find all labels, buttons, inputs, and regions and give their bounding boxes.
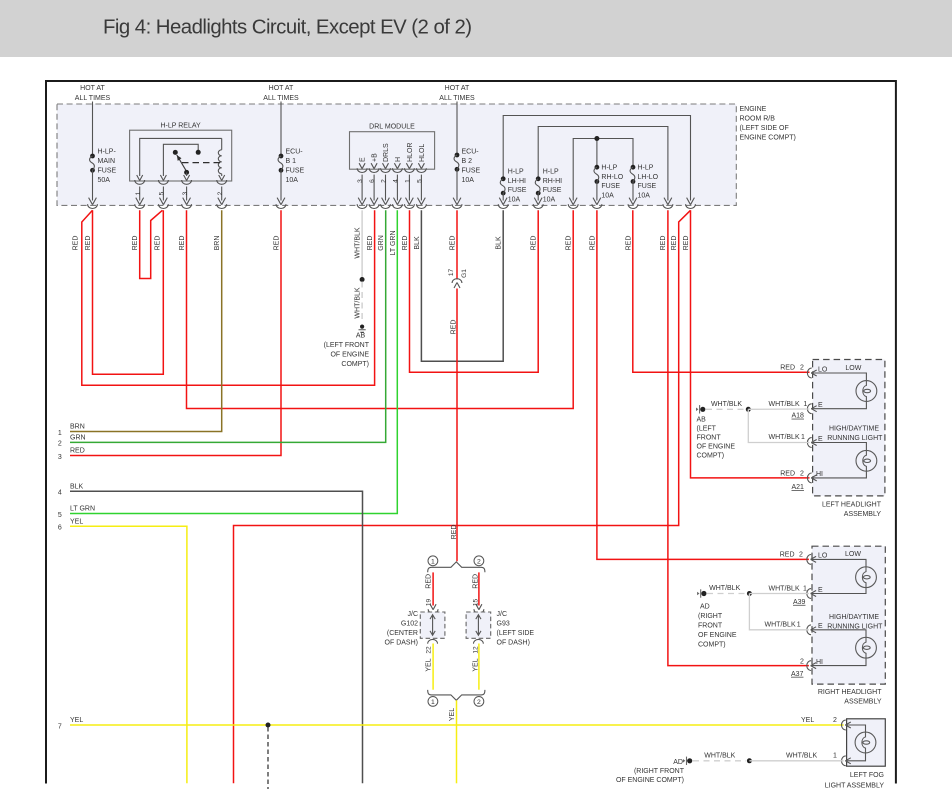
svg-text:LO: LO xyxy=(818,366,828,373)
wire RED relay pin3 to LO-fuse bus xyxy=(187,210,574,408)
relay common contact (pin3) xyxy=(184,170,189,175)
svg-text:A21: A21 xyxy=(792,484,805,491)
svg-text:RED: RED xyxy=(274,236,281,251)
svg-text:2: 2 xyxy=(800,470,804,477)
svg-text:1: 1 xyxy=(58,430,62,437)
svg-text:1: 1 xyxy=(801,434,805,441)
svg-text:OF ENGINE: OF ENGINE xyxy=(330,352,369,359)
svg-text:RED: RED xyxy=(85,236,92,251)
circled 1 bottom xyxy=(428,697,438,707)
svg-text:H: H xyxy=(395,157,402,162)
wire RED main fuse branch to DRL +B xyxy=(82,210,375,385)
svg-text:6: 6 xyxy=(58,525,62,532)
svg-text:FUSE: FUSE xyxy=(286,167,305,174)
left headlight pin HI xyxy=(807,473,816,483)
svg-text:A39: A39 xyxy=(793,599,806,606)
svg-text:YEL: YEL xyxy=(70,519,83,526)
svg-text:A37: A37 xyxy=(791,671,804,678)
svg-text:1: 1 xyxy=(405,179,412,183)
svg-text:H-LP: H-LP xyxy=(601,165,617,172)
wire RED brace to J/C G102 xyxy=(432,572,434,605)
svg-text:10A: 10A xyxy=(286,177,299,184)
svg-text:WHT/BLK: WHT/BLK xyxy=(769,585,800,592)
junction WHT/BLK AB xyxy=(746,407,751,412)
fuse H-LP LH-HI 10A xyxy=(500,176,505,195)
svg-text:WHT/BLK: WHT/BLK xyxy=(704,752,735,759)
svg-text:OF ENGINE COMPT): OF ENGINE COMPT) xyxy=(616,777,684,784)
svg-text:E: E xyxy=(818,587,823,594)
svg-text:FUSE: FUSE xyxy=(601,183,620,190)
svg-text:10A: 10A xyxy=(543,196,556,203)
svg-text:RED: RED xyxy=(780,552,795,559)
svg-text:H-LP RELAY: H-LP RELAY xyxy=(160,123,201,130)
wire LT GRN DRL H to row 5 xyxy=(70,210,397,513)
fuse ECU-B 2 10A xyxy=(456,102,458,156)
svg-text:HI: HI xyxy=(816,471,823,478)
svg-text:YEL: YEL xyxy=(70,717,83,724)
svg-text:RED: RED xyxy=(473,574,480,589)
wire RED main fuse to relay pin5 (U) xyxy=(93,210,164,374)
svg-text:RED: RED xyxy=(566,236,573,251)
svg-text:WHT/BLK: WHT/BLK xyxy=(769,434,800,441)
left headlight pin E xyxy=(807,438,816,448)
brace bottom (connector 1/2) xyxy=(428,690,485,700)
svg-text:LOW: LOW xyxy=(845,365,861,372)
wire RED DRL HLOR to RH-HI fuse xyxy=(410,210,539,372)
splice AD to fog light xyxy=(683,757,692,765)
svg-text:RED: RED xyxy=(531,236,538,251)
svg-text:RH-HI: RH-HI xyxy=(543,178,562,185)
relay coil xyxy=(218,138,221,176)
wire to connector (bracket3 left leg) xyxy=(568,198,578,209)
left headlight pin LO xyxy=(807,368,816,378)
svg-text:RED: RED xyxy=(660,236,667,251)
title bar xyxy=(0,0,952,57)
svg-text:HOT AT: HOT AT xyxy=(80,85,105,92)
svg-text:OF ENGINE: OF ENGINE xyxy=(697,444,736,451)
svg-text:RH-LO: RH-LO xyxy=(601,174,623,181)
wire YEL row 7 to left fog light xyxy=(70,724,844,726)
svg-text:DRL MODULE: DRL MODULE xyxy=(369,124,415,131)
svg-text:LOW: LOW xyxy=(845,551,861,558)
relay internal: pin5-contact wire xyxy=(163,144,198,176)
relay switch blade xyxy=(177,155,187,172)
svg-text:LH-LO: LH-LO xyxy=(638,174,659,181)
svg-text:RED: RED xyxy=(589,236,596,251)
wire RED relay pin1 to pin5 (U) xyxy=(140,210,163,278)
svg-text:22: 22 xyxy=(425,646,432,654)
inline connector 17 / G1 xyxy=(452,279,462,288)
relay internal: pin1-coil wire xyxy=(140,138,222,176)
svg-text:2: 2 xyxy=(800,659,804,666)
svg-text:YEL: YEL xyxy=(473,658,480,671)
relay armature dashed link xyxy=(182,162,224,164)
svg-text:FRONT: FRONT xyxy=(698,622,723,629)
svg-text:A18: A18 xyxy=(792,413,805,420)
svg-text:RIGHT HEADLIGHT: RIGHT HEADLIGHT xyxy=(818,689,882,696)
svg-text:AB: AB xyxy=(356,333,366,340)
svg-text:E: E xyxy=(818,402,823,409)
svg-text:RED: RED xyxy=(451,525,458,540)
svg-text:OF ENGINE: OF ENGINE xyxy=(698,632,737,639)
svg-text:HIGH/DAYTIME: HIGH/DAYTIME xyxy=(829,425,879,432)
left headlight assembly dashed box xyxy=(813,360,885,496)
left fog light assembly box xyxy=(847,719,886,766)
right headlight assembly dashed box xyxy=(812,546,885,684)
svg-text:19: 19 xyxy=(425,599,432,607)
fog pin YEL (2) xyxy=(842,720,851,730)
svg-text:AB: AB xyxy=(697,416,707,423)
svg-text:ASSEMBLY: ASSEMBLY xyxy=(844,699,882,706)
svg-text:RUNNING LIGHT: RUNNING LIGHT xyxy=(827,435,883,442)
svg-text:3: 3 xyxy=(182,191,189,195)
svg-text:YEL: YEL xyxy=(801,717,814,724)
svg-text:2: 2 xyxy=(833,717,837,724)
svg-text:3: 3 xyxy=(58,454,62,461)
svg-text:ECU-: ECU- xyxy=(462,148,480,155)
fuse H-LP RH-HI 10A xyxy=(535,176,540,195)
svg-text:RED: RED xyxy=(73,236,80,251)
svg-text:BLK: BLK xyxy=(70,483,84,490)
svg-text:G1: G1 xyxy=(461,269,468,278)
svg-text:BLK: BLK xyxy=(414,236,421,250)
wire RED G1 to J/C brace xyxy=(456,289,458,562)
svg-text:WHT/BLK: WHT/BLK xyxy=(709,585,740,592)
J/C G102 internal xyxy=(430,615,435,636)
svg-text:RED: RED xyxy=(402,236,409,251)
svg-text:E: E xyxy=(360,157,367,162)
splice AD to right headlight E xyxy=(697,589,706,597)
svg-text:COMPT): COMPT) xyxy=(697,453,725,460)
junction connector J/C G93 box xyxy=(466,612,491,638)
engine room R/B dashed box xyxy=(57,104,736,205)
figure frame border xyxy=(46,81,896,784)
svg-text:BLK: BLK xyxy=(496,236,503,250)
svg-text:H-LP: H-LP xyxy=(543,169,559,176)
svg-text:10A: 10A xyxy=(601,192,614,199)
dashed branch below row 7 xyxy=(267,727,269,789)
svg-text:WHT/BLK: WHT/BLK xyxy=(355,287,362,318)
svg-text:FUSE: FUSE xyxy=(462,167,481,174)
wire RED ECU-B2 to inline connector G1 xyxy=(456,210,458,279)
svg-text:RED: RED xyxy=(367,236,374,251)
svg-text:(LEFT SIDE OF: (LEFT SIDE OF xyxy=(740,125,789,132)
svg-text:HIGH/DAYTIME: HIGH/DAYTIME xyxy=(829,614,879,621)
brace top (connector 1/2) xyxy=(428,562,485,572)
wire GRN DRL DRLS to row 2 xyxy=(70,210,386,442)
wire WHT/BLK DRL E to splice AB xyxy=(361,210,363,277)
svg-text:Fig 4: Headlights Circuit, Exc: Fig 4: Headlights Circuit, Except EV (2 … xyxy=(103,17,472,39)
svg-text:WHT/BLK: WHT/BLK xyxy=(769,401,800,408)
svg-text:10A: 10A xyxy=(508,196,521,203)
fog pin WHT/BLK (1) xyxy=(842,756,851,766)
junction connector J/C G102 box xyxy=(420,612,445,638)
svg-text:ALL TIMES: ALL TIMES xyxy=(263,95,299,102)
svg-text:1: 1 xyxy=(833,753,837,760)
svg-text:LEFT FOG: LEFT FOG xyxy=(850,772,884,779)
svg-text:HLOL: HLOL xyxy=(419,144,426,162)
svg-text:HOT AT: HOT AT xyxy=(269,85,294,92)
svg-text:H-LP-: H-LP- xyxy=(98,148,117,155)
svg-text:2: 2 xyxy=(800,364,804,371)
bus bracket 1 (LH-HI feed) xyxy=(503,116,690,201)
right headlight pin HI xyxy=(807,661,816,671)
svg-text:RED: RED xyxy=(132,236,139,251)
svg-text:RED: RED xyxy=(179,236,186,251)
fog bulb xyxy=(855,732,876,753)
junction WHT/BLK AD xyxy=(747,591,752,596)
relay K1 H-LP RELAY box xyxy=(130,130,232,181)
svg-text:+B: +B xyxy=(372,153,379,162)
svg-text:5: 5 xyxy=(159,191,166,195)
svg-text:WHT/BLK: WHT/BLK xyxy=(765,621,796,628)
svg-text:OF DASH): OF DASH) xyxy=(385,640,418,647)
svg-text:RUNNING LIGHT: RUNNING LIGHT xyxy=(827,623,883,630)
junction WHT/BLK AD fog xyxy=(747,758,752,763)
svg-text:WHT/BLK: WHT/BLK xyxy=(786,753,817,760)
svg-text:2: 2 xyxy=(381,179,388,183)
svg-text:7: 7 xyxy=(58,723,62,730)
right headlight pin LO xyxy=(807,554,816,564)
left headlight internal wiring xyxy=(812,373,866,478)
svg-text:(LEFT FRONT: (LEFT FRONT xyxy=(324,342,370,349)
right headlight internal wiring xyxy=(812,559,866,665)
junction row7 / dashed branch xyxy=(266,723,271,728)
svg-text:B 2: B 2 xyxy=(462,158,473,165)
splice AB (vertical) xyxy=(359,325,366,333)
svg-text:HLOR: HLOR xyxy=(407,143,414,162)
svg-text:ASSEMBLY: ASSEMBLY xyxy=(844,511,882,518)
svg-text:RED: RED xyxy=(426,574,433,589)
svg-text:RED: RED xyxy=(451,320,458,335)
svg-text:RED: RED xyxy=(625,236,632,251)
svg-text:FRONT: FRONT xyxy=(697,435,722,442)
DRL module U1 box xyxy=(350,132,435,170)
wire BLK LH-HI fuse to DRL HLOL (U) xyxy=(421,210,503,361)
svg-text:RED: RED xyxy=(780,470,795,477)
svg-text:5: 5 xyxy=(58,512,62,519)
fog internal wiring xyxy=(846,725,865,761)
svg-text:ALL TIMES: ALL TIMES xyxy=(439,95,475,102)
svg-text:RED: RED xyxy=(70,448,85,455)
svg-text:MAIN: MAIN xyxy=(98,158,116,165)
svg-text:AD: AD xyxy=(673,759,683,766)
svg-text:(LEFT SIDE: (LEFT SIDE xyxy=(497,630,535,637)
svg-text:COMPT): COMPT) xyxy=(698,641,726,648)
circled 2 top xyxy=(474,556,484,566)
svg-text:4: 4 xyxy=(393,179,400,183)
left headlight pin E xyxy=(807,404,816,414)
wire RED brace to J/C G93 xyxy=(478,572,480,605)
svg-text:G93: G93 xyxy=(497,621,510,628)
svg-text:5: 5 xyxy=(417,179,424,183)
svg-text:ALL TIMES: ALL TIMES xyxy=(75,95,111,102)
svg-text:RED: RED xyxy=(780,364,795,371)
svg-text:(RIGHT: (RIGHT xyxy=(698,613,723,620)
junction bracket3 / RH-LO xyxy=(594,136,599,141)
svg-text:LT GRN: LT GRN xyxy=(390,230,397,255)
svg-text:LH-HI: LH-HI xyxy=(508,178,526,185)
svg-text:LO: LO xyxy=(818,553,828,560)
svg-text:6: 6 xyxy=(369,179,376,183)
svg-text:1: 1 xyxy=(803,401,807,408)
svg-text:J/C: J/C xyxy=(497,611,508,618)
svg-text:3: 3 xyxy=(357,179,364,183)
right headlight pin E xyxy=(807,625,816,635)
svg-text:RED: RED xyxy=(450,236,457,251)
wire YEL row 6 xyxy=(70,526,187,783)
svg-text:H-LP: H-LP xyxy=(508,169,524,176)
right headlight low bulb xyxy=(856,567,877,588)
J/C G93 internal xyxy=(476,615,481,636)
svg-text:FUSE: FUSE xyxy=(543,187,562,194)
svg-text:2: 2 xyxy=(799,552,803,559)
svg-text:BRN: BRN xyxy=(214,236,221,251)
svg-text:17: 17 xyxy=(448,269,455,277)
svg-text:GRN: GRN xyxy=(70,435,86,442)
svg-text:1: 1 xyxy=(797,621,801,628)
junction WHT/BLK xyxy=(360,277,365,282)
svg-text:ROOM R/B: ROOM R/B xyxy=(740,116,776,123)
svg-text:LEFT HEADLIGHT: LEFT HEADLIGHT xyxy=(822,502,882,509)
relay open contact xyxy=(173,150,178,155)
fuse H-LP LH-LO 10A xyxy=(630,165,635,184)
svg-text:LIGHT ASSEMBLY: LIGHT ASSEMBLY xyxy=(825,782,885,789)
wire YEL J/C G102 out xyxy=(432,644,434,690)
svg-text:FUSE: FUSE xyxy=(508,187,527,194)
splice AB to left headlight E xyxy=(696,405,705,413)
wire YEL brace down (crosses row 7) xyxy=(456,700,458,783)
wire RED LH-LO fuse to left headlight LO xyxy=(633,210,810,372)
svg-text:50A: 50A xyxy=(98,177,111,184)
svg-text:15: 15 xyxy=(473,599,480,607)
svg-text:WHT/BLK: WHT/BLK xyxy=(355,227,362,258)
wire BLK row 4 xyxy=(70,491,363,783)
wire BRN relay pin2 to row 1 xyxy=(70,210,222,431)
circled 2 bottom xyxy=(474,697,484,707)
svg-text:HI: HI xyxy=(816,659,823,666)
relay pins 1,5,3,2 xyxy=(135,175,145,184)
wire RED bracket1 branch to dimmer (down) xyxy=(234,210,691,783)
bus bracket 3 (LO feed) xyxy=(573,139,633,201)
svg-text:(CENTER: (CENTER xyxy=(387,630,418,637)
svg-text:H-LP: H-LP xyxy=(638,165,654,172)
svg-text:1: 1 xyxy=(803,585,807,592)
svg-text:(RIGHT FRONT: (RIGHT FRONT xyxy=(634,768,685,775)
svg-text:RED: RED xyxy=(155,236,162,251)
svg-text:AD: AD xyxy=(700,603,710,610)
wire YEL J/C G93 out xyxy=(478,644,480,690)
svg-text:E: E xyxy=(818,623,823,630)
svg-text:YEL: YEL xyxy=(449,708,456,721)
right headlight pin E xyxy=(807,589,816,599)
fuse H-LP-MAIN 50A xyxy=(92,102,94,157)
svg-text:10A: 10A xyxy=(638,192,651,199)
svg-text:LT GRN: LT GRN xyxy=(70,506,95,513)
wire RED RH-LO fuse to right headlight LO xyxy=(597,210,809,559)
svg-text:COMPT): COMPT) xyxy=(341,361,369,368)
left headlight low bulb xyxy=(856,381,877,402)
svg-text:1: 1 xyxy=(135,191,142,195)
svg-text:J/C: J/C xyxy=(408,611,419,618)
fuse ECU-B 1 10A xyxy=(280,102,282,157)
svg-text:2: 2 xyxy=(58,441,62,448)
circled 1 top xyxy=(428,556,438,566)
svg-text:DRLS: DRLS xyxy=(383,143,390,162)
svg-text:HOT AT: HOT AT xyxy=(445,85,470,92)
wires to connectors (brackets 1,2 right legs) xyxy=(663,198,673,209)
relay fixed contact (pin5) xyxy=(196,150,201,155)
svg-text:12: 12 xyxy=(473,646,480,654)
svg-text:(LEFT: (LEFT xyxy=(697,425,717,432)
wire RED ECU-B1 to row 3 xyxy=(70,210,281,455)
svg-text:YEL: YEL xyxy=(426,658,433,671)
wire RED bracket1 to left headlight HI xyxy=(691,210,810,478)
svg-text:ENGINE: ENGINE xyxy=(740,106,767,113)
svg-text:G102: G102 xyxy=(401,621,418,628)
svg-text:E: E xyxy=(818,436,823,443)
svg-text:RED: RED xyxy=(671,236,678,251)
svg-text:4: 4 xyxy=(58,490,62,497)
svg-text:GRN: GRN xyxy=(378,235,385,251)
svg-text:BRN: BRN xyxy=(70,424,85,431)
svg-text:2: 2 xyxy=(217,191,224,195)
svg-text:ECU-: ECU- xyxy=(286,148,304,155)
fuse H-LP RH-LO 10A xyxy=(594,165,599,184)
svg-text:OF DASH): OF DASH) xyxy=(497,640,530,647)
bus bracket 2 (RH-HI feed) xyxy=(538,127,668,201)
svg-text:ENGINE COMPT): ENGINE COMPT) xyxy=(740,135,796,142)
svg-text:WHT/BLK: WHT/BLK xyxy=(711,401,742,408)
wire RED bracket2 to right headlight HI xyxy=(668,210,809,665)
svg-text:FUSE: FUSE xyxy=(98,167,117,174)
svg-text:FUSE: FUSE xyxy=(638,183,657,190)
svg-text:10A: 10A xyxy=(462,177,475,184)
svg-text:RED: RED xyxy=(683,236,690,251)
left headlight high bulb xyxy=(856,450,877,471)
right headlight high bulb xyxy=(856,637,877,658)
svg-text:B 1: B 1 xyxy=(286,158,297,165)
